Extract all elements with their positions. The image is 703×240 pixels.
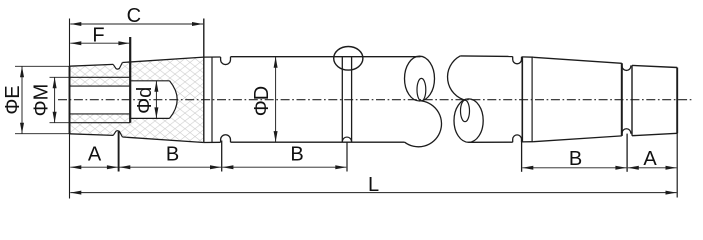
extension line at water hole	[346, 142, 348, 172]
body top edge	[231, 56, 421, 58]
collar 2 bottom edge	[522, 141, 534, 143]
dimension A left	[70, 166, 118, 168]
dimension C	[70, 23, 203, 25]
bore end arc	[170, 81, 178, 119]
groove 3 top	[622, 63, 631, 70]
break right small loop	[461, 100, 470, 122]
dimension L	[70, 192, 676, 194]
extension line A/B left	[118, 131, 120, 171]
pin end face + A/L extension	[676, 68, 678, 198]
svg-text:B: B	[569, 148, 582, 170]
svg-text:C: C	[127, 5, 141, 27]
bore line M top	[70, 76, 131, 78]
svg-text:A: A	[88, 143, 102, 165]
pin top edge	[632, 65, 677, 67]
extension line B/B left	[221, 141, 223, 172]
taper top edge A-part	[70, 64, 114, 66]
right taper end face	[621, 63, 623, 136]
bore d top line	[130, 80, 169, 82]
collar 2 top edge	[522, 56, 534, 58]
right body bottom edge	[469, 141, 513, 143]
top thread relief notch	[113, 63, 122, 70]
right body top edge	[460, 55, 513, 58]
water hole right wall	[351, 57, 353, 142]
dimension F	[70, 42, 129, 44]
bore inner line bottom	[70, 113, 131, 115]
bore line M bottom	[70, 122, 131, 124]
dimension B1	[119, 166, 221, 168]
bore step / F extension line	[129, 37, 131, 123]
taper bottom edge A-part	[70, 134, 114, 136]
break left lower lobe	[405, 101, 442, 147]
dimension A right	[628, 167, 677, 169]
svg-text:A: A	[643, 148, 657, 170]
svg-text:Φd: Φd	[134, 87, 156, 114]
groove 3 bottom	[622, 129, 631, 136]
dimension Phid	[155, 81, 157, 119]
collar 2 right line	[531, 57, 533, 142]
svg-text:F: F	[92, 24, 104, 46]
pin bottom edge	[632, 133, 677, 135]
groove 2 bottom	[513, 135, 522, 142]
dimension B2	[222, 166, 346, 168]
water hole bottom cap arc	[342, 137, 351, 142]
dimension PhiD	[275, 57, 277, 142]
svg-text:ΦE: ΦE	[2, 85, 24, 114]
taper big-end face + C extension	[203, 19, 205, 143]
groove 1 bottom	[221, 135, 231, 143]
break left big loop	[405, 56, 435, 101]
right taper top edge	[533, 57, 621, 63]
svg-text:L: L	[368, 174, 379, 196]
bottom thread relief notch	[113, 131, 122, 137]
pin left edge	[631, 65, 633, 135]
collar bottom edge	[204, 141, 221, 143]
centerline	[58, 99, 692, 101]
bore d bottom line	[130, 117, 169, 119]
body bottom edge	[231, 141, 405, 143]
svg-text:ΦD: ΦD	[251, 86, 273, 116]
groove 1 top	[221, 57, 231, 65]
extension line right B/A	[626, 134, 628, 172]
right taper bottom edge	[533, 136, 621, 142]
left face edge + C/F/A/L extension line	[69, 19, 71, 199]
svg-text:B: B	[166, 143, 179, 165]
break right big loop	[454, 99, 483, 142]
bore inner line top	[70, 85, 131, 87]
hatched thread section	[70, 57, 204, 142]
svg-text:B: B	[290, 143, 303, 165]
break right upper lobe	[448, 56, 467, 101]
dimension PhiM	[54, 77, 56, 122]
collar line	[211, 57, 213, 142]
water hole left wall	[341, 57, 343, 142]
collar 2 left line	[521, 57, 523, 142]
groove 2 top	[513, 57, 522, 64]
dimension PhiE	[21, 66, 23, 133]
dimension B right	[522, 167, 626, 169]
taper bottom edge B-part	[122, 137, 203, 143]
taper top edge B-part	[122, 57, 203, 62]
extension line right B start	[521, 141, 523, 172]
collar top edge	[204, 56, 221, 58]
water hole ellipse	[334, 47, 363, 71]
svg-text:ΦM: ΦM	[31, 84, 53, 117]
break left small loop	[417, 78, 426, 101]
